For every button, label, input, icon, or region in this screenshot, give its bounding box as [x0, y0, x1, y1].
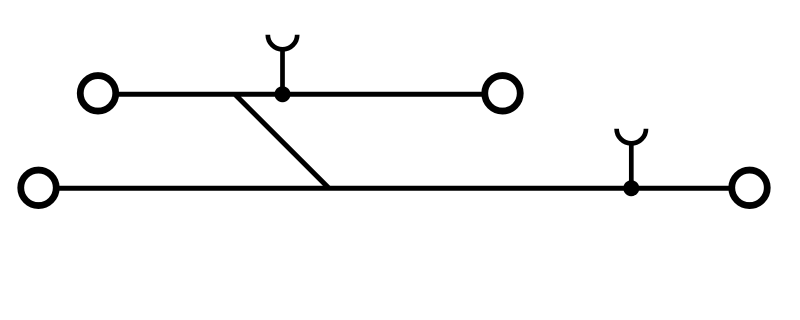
junction dot on top wire	[275, 86, 291, 102]
wire bottom horizontal	[39, 186, 750, 191]
test tap T1 stem	[280, 47, 285, 94]
wire top horizontal	[98, 92, 503, 97]
test tap T2 socket arc	[617, 129, 646, 144]
terminal circle top-right	[485, 76, 521, 112]
test tap T1 socket arc	[268, 35, 297, 50]
terminal circle bottom-right	[732, 170, 768, 206]
terminal circle bottom-left	[21, 170, 57, 206]
wire diagonal bridge	[235, 94, 329, 188]
junction dot on bottom wire	[623, 180, 639, 196]
terminal circle top-left	[80, 76, 116, 112]
test tap T2 stem	[629, 141, 634, 188]
